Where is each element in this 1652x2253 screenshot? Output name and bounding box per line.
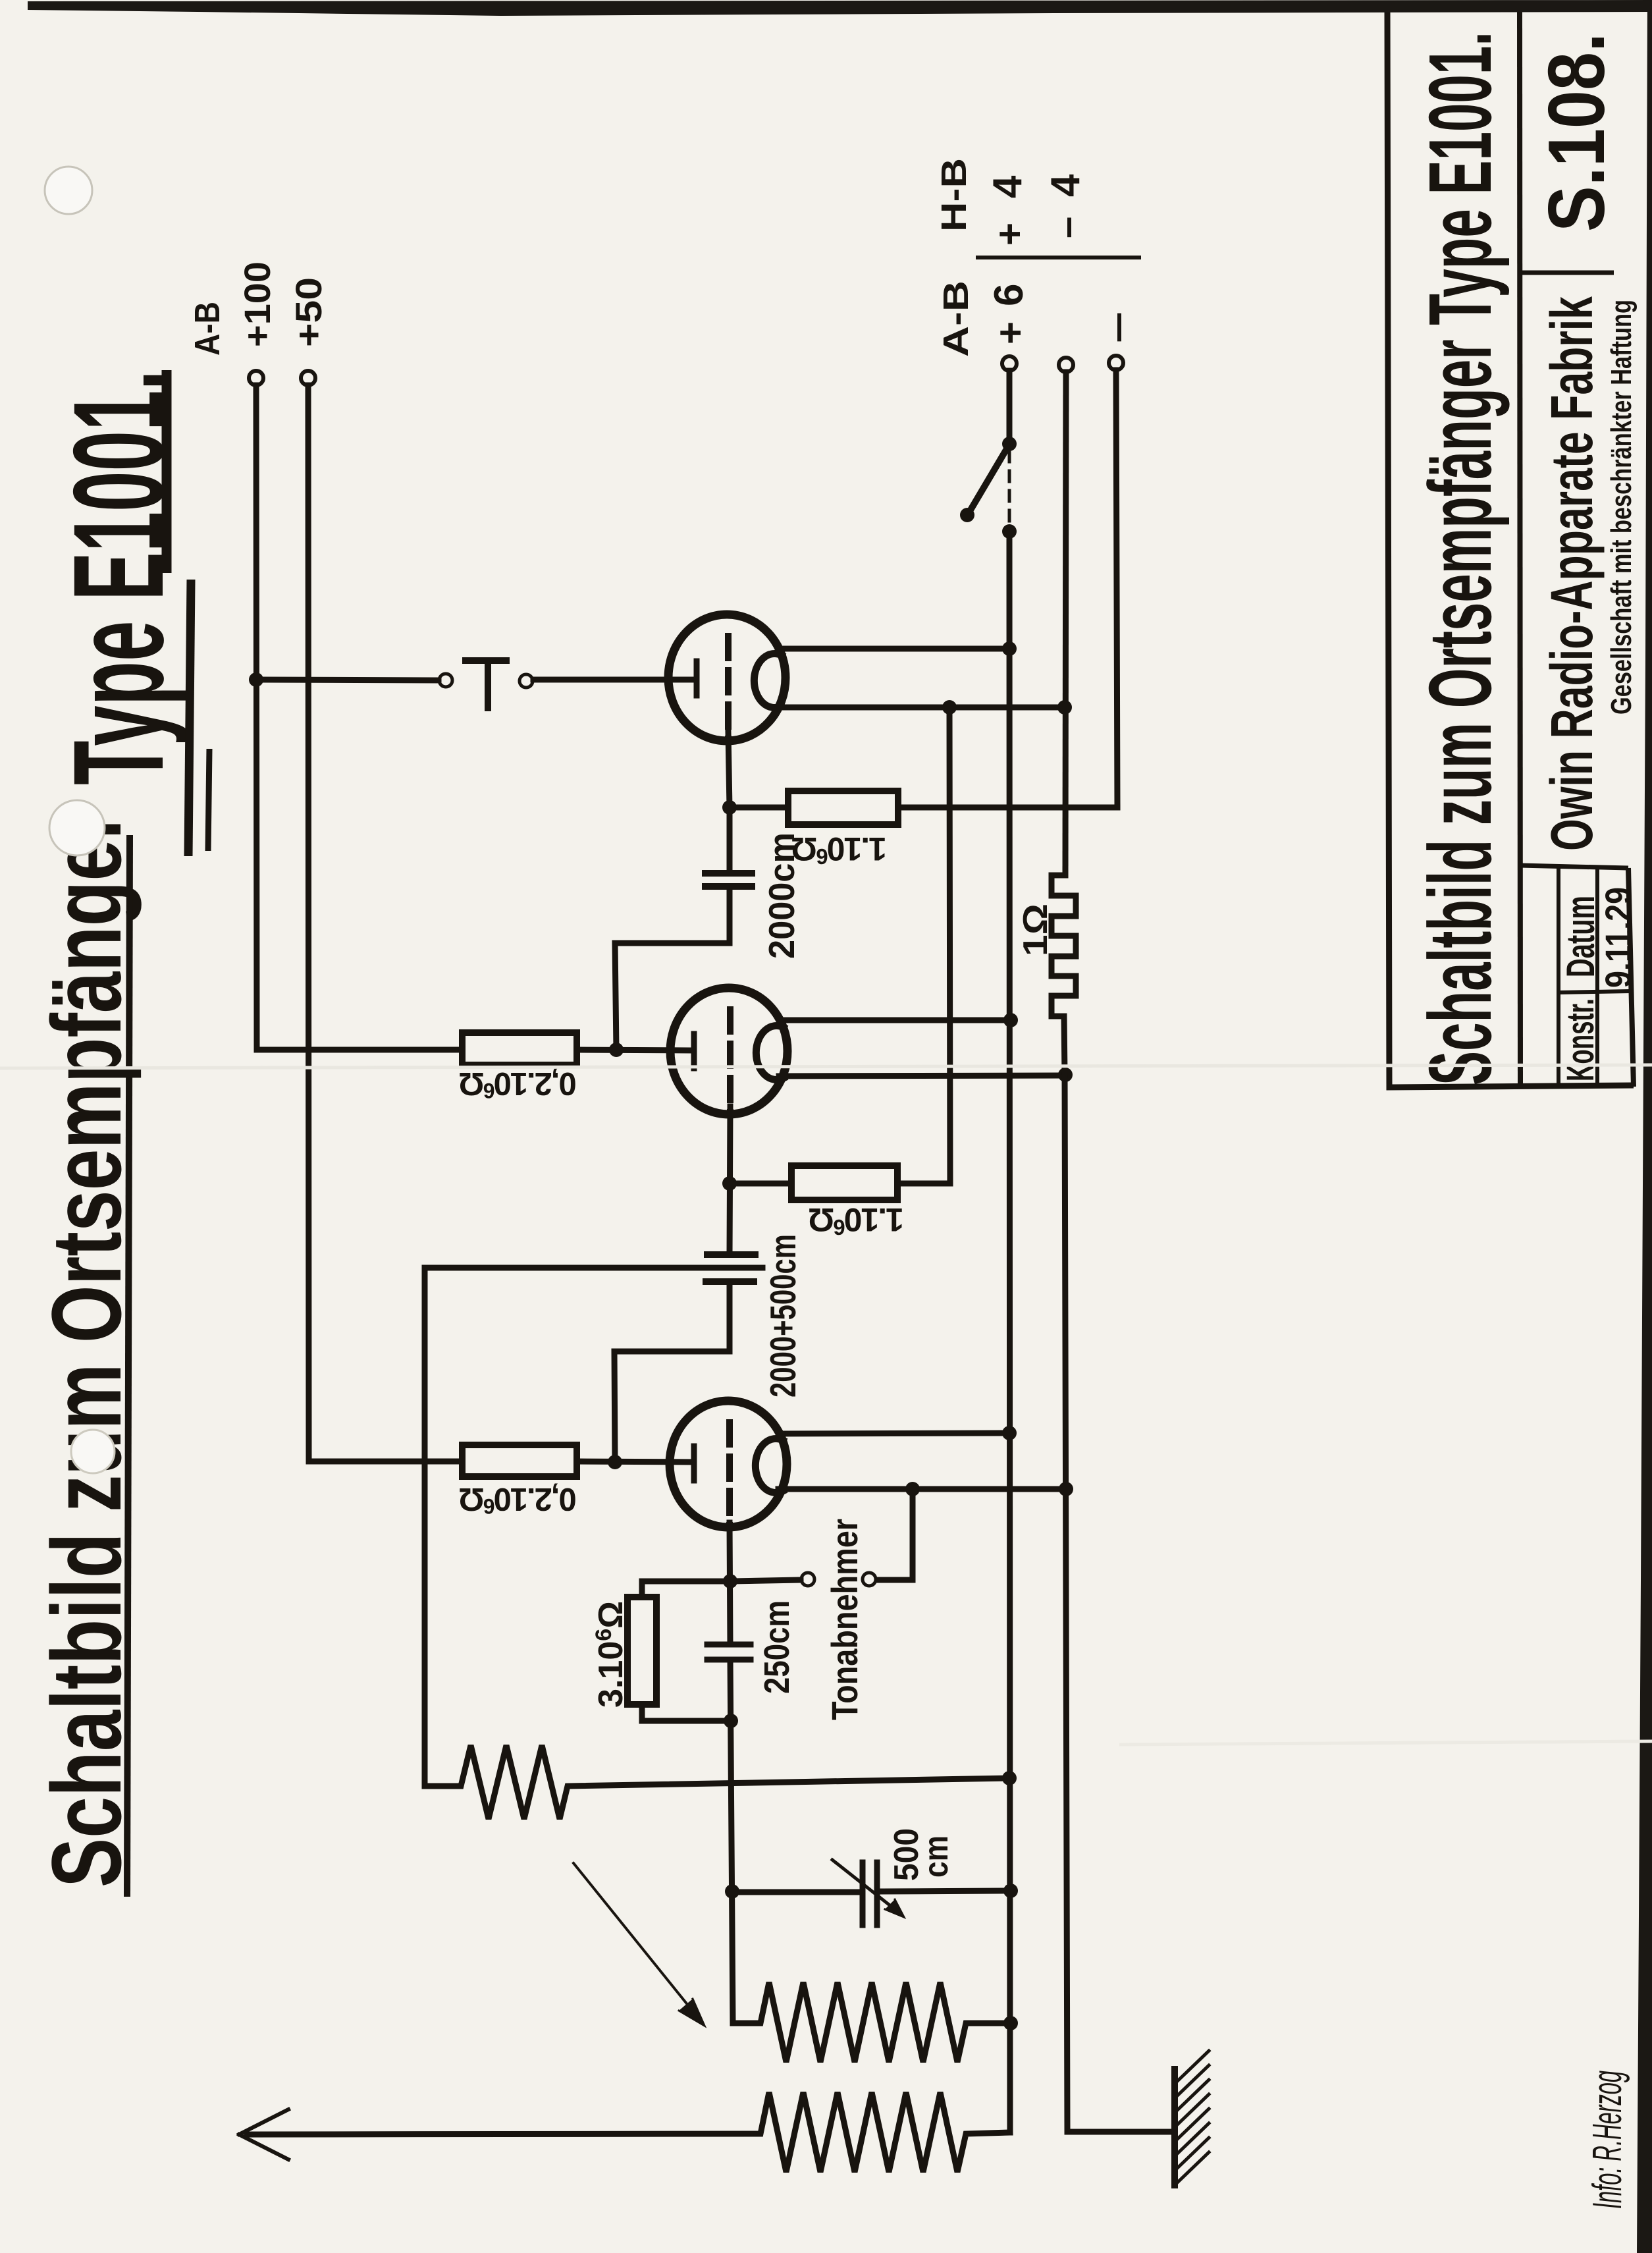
svg-text:S.108.: S.108.: [1532, 33, 1621, 232]
node A junction +100 bus to telephone switch: [249, 672, 263, 687]
tube V2 grid electrode: [691, 1034, 697, 1068]
switch S1 lever tip blob: [960, 508, 974, 522]
wire tube V2 anode to +6 bus: [781, 1018, 1011, 1023]
resistor R5 3.10^6 Ohm: [627, 1597, 656, 1704]
node junction below V1: [722, 800, 737, 815]
wire 500cm row left: [732, 1889, 857, 1895]
capacitor C1 2000cm upper plate: [705, 870, 752, 877]
svg-text:1.106Ω: 1.106Ω: [809, 1201, 904, 1239]
svg-text:4: 4: [985, 175, 1030, 198]
svg-text:Info: R.Herzog: Info: R.Herzog: [1585, 2071, 1630, 2209]
capacitor C1 2000cm lower plate: [705, 883, 752, 890]
terminal +100: [249, 371, 263, 385]
label +4: [985, 175, 1032, 246]
svg-text:+50: +50: [288, 277, 329, 347]
variable capacitor arrow through C4: [832, 1860, 904, 1917]
svg-text:0,2.106Ω: 0,2.106Ω: [460, 1066, 577, 1102]
wire +100 bus to switch T left contact: [256, 680, 439, 680]
svg-text:3.106Ω: 3.106Ω: [591, 1601, 630, 1708]
wire C2 bottom plate to grid node V3: [614, 1282, 730, 1462]
tube V2 filament dashed line: [727, 1010, 733, 1115]
tube V3 grid electrode: [691, 1446, 697, 1480]
punch hole lower: [71, 1430, 115, 1473]
paper crease light line: [0, 1065, 1652, 1068]
capacitor C3 250cm lower plate: [707, 1657, 751, 1663]
svg-text:Tonabnehmer: Tonabnehmer: [824, 1519, 865, 1720]
terminal H-B +4: [1059, 358, 1073, 372]
wire tube V2 cathode down: [730, 1106, 730, 1255]
svg-text:6: 6: [986, 284, 1032, 306]
resistor R1 1.10^6 Ohm: [788, 791, 898, 825]
switch T left contact circle: [439, 674, 452, 687]
wire tube V3 anode to +6 bus: [780, 1433, 1009, 1434]
divider bar H-B labels: [976, 256, 1141, 259]
tube V1 grid electrode: [694, 661, 700, 695]
punch hole top: [45, 167, 92, 214]
switch S1 lever: [970, 447, 1008, 511]
capacitor C3 250cm upper plate: [707, 1642, 751, 1648]
svg-text:–: –: [1044, 217, 1088, 238]
svg-text:cm: cm: [917, 1835, 955, 1878]
capacitor C2 2000+500cm middle plate wire to coil: [425, 1268, 762, 1786]
paper crease light line 2: [1119, 1741, 1652, 1745]
switch T right contact circle: [520, 674, 533, 688]
svg-text:Gesellschaft mit beschränkter: Gesellschaft mit beschränkter Haftung: [1605, 300, 1638, 715]
wire tube V3 filament to +4 bus: [778, 1486, 1066, 1492]
switch S1 pivot node: [1002, 437, 1017, 451]
svg-text:2000+500cm: 2000+500cm: [762, 1234, 803, 1398]
wire junction to C1: [727, 807, 733, 873]
wire R2 to grid node V2: [577, 1050, 691, 1050]
terminal -4: [1109, 356, 1123, 370]
svg-text:1Ω: 1Ω: [1017, 904, 1055, 956]
scan border right: [1637, 0, 1652, 2253]
wire left pickup terminal to V3 cathode node: [730, 1580, 801, 1581]
wire switch to grid of tube V1: [533, 677, 694, 683]
svg-text:4: 4: [1043, 174, 1088, 197]
wire C1 to grid node of V2: [615, 886, 730, 1050]
resistor 1 Ohm meander: [1052, 875, 1076, 1075]
switch S1 dashed gap: [1008, 451, 1011, 527]
bus +4 lower vertical to ground wire: [1065, 1075, 1171, 2132]
svg-text:+: +: [988, 223, 1032, 246]
bus +6 main vertical: [1009, 531, 1010, 2132]
regeneration arrow: [573, 1863, 705, 2026]
node junction L2 / +6 bus: [1003, 2016, 1018, 2030]
wire C3 down through junctions to coil L2: [730, 1660, 733, 2023]
svg-text:9.11.29: 9.11.29: [1597, 887, 1639, 988]
node junction V3 filament wire / +4 bus: [1059, 1482, 1073, 1496]
svg-text:+: +: [988, 321, 1032, 344]
capacitor C4 500cm left plate: [860, 1862, 866, 1925]
wire tube V1 filament to +4 bus: [777, 705, 1065, 711]
capacitor C2 2000+500cm bottom plate: [706, 1278, 754, 1285]
node junction V3 anode wire / +6 bus: [1002, 1426, 1017, 1440]
node junction V1 filament wire / dropper line: [942, 700, 957, 715]
main title underline 1: [127, 835, 130, 1897]
wire tube V3 cathode down: [730, 1523, 730, 1644]
wire R4 to grid node V3: [577, 1461, 691, 1462]
terminal A-B +6: [1002, 356, 1017, 371]
wire minus terminal bus vertical: [1116, 370, 1117, 807]
Tonabnehmer left terminal: [801, 1573, 814, 1586]
node grid junction V3: [608, 1455, 622, 1469]
antenna arrowhead: [239, 2109, 288, 2159]
node junction V3 filament / pickup branch: [905, 1482, 920, 1496]
svg-text:Owin Radio-Apparate Fabrik: Owin Radio-Apparate Fabrik: [1539, 296, 1605, 851]
scan border top: [28, 0, 1652, 16]
svg-text:250cm: 250cm: [757, 1600, 797, 1694]
node junction R5 bottom: [724, 1714, 738, 1728]
switch S1 lower contact node: [1002, 524, 1017, 539]
resistor R3 1.10^6 Ohm: [791, 1166, 897, 1200]
bus +4 upper vertical: [1065, 372, 1066, 875]
svg-text:Konstr.: Konstr.: [1559, 998, 1602, 1081]
wire +100 bus down then right to grid resistor row of tube V2: [256, 385, 462, 1050]
wire resistor R1 to minus terminal bus: [898, 805, 1117, 811]
resistor R4 0,2.10^6 Ohm grid leak V3: [462, 1445, 577, 1477]
wire pickup branch down to right pickup terminal: [877, 1489, 913, 1580]
tube V1 anode circle: [754, 654, 782, 708]
tube V1 envelope: [668, 614, 786, 741]
bus +6 upper segment to switch: [1007, 371, 1013, 444]
node junction V2 filament wire / +4 bus: [1058, 1068, 1073, 1082]
main title underline 4: [208, 749, 209, 851]
svg-text:Schaltbild zum Ortsempfänger T: Schaltbild zum Ortsempfänger Type E1001.: [1410, 32, 1510, 1085]
tube V3 envelope: [670, 1401, 787, 1527]
coil L1 zigzag with feed wire to +6 bus: [425, 1745, 1009, 1819]
switch T symbol: [466, 661, 506, 708]
node junction 500cm wire / +6 bus: [1003, 1884, 1018, 1898]
svg-text:0,2.106Ω: 0,2.106Ω: [460, 1481, 577, 1518]
tube V3 anode circle: [755, 1439, 783, 1493]
Tonabnehmer right terminal: [863, 1573, 876, 1586]
ground symbol: [1175, 2051, 1209, 2185]
main title underline 2: [162, 370, 172, 573]
antenna wire with coil L3 zigzag: [247, 2092, 1010, 2172]
wire 500cm row right to +6 bus: [883, 1891, 1011, 1891]
svg-text:+100: +100: [236, 261, 278, 347]
tube V2 anode circle: [756, 1025, 784, 1079]
punch hole middle: [49, 800, 105, 855]
node junction V3 cathode / pickup / R5 top: [723, 1574, 737, 1588]
wire +50 bus down then right to grid resistor row of tube V3: [308, 385, 462, 1461]
svg-text:1.106Ω: 1.106Ω: [791, 830, 887, 869]
svg-text:–: –: [1094, 312, 1138, 343]
svg-text:H-B: H-B: [934, 158, 974, 232]
node junction V2 anode wire / +6 bus: [1003, 1013, 1018, 1027]
capacitor C4 500cm right plate: [874, 1862, 880, 1925]
wire R5 bottom connection: [642, 1704, 731, 1721]
capacitor C2 2000+500cm top plate: [707, 1251, 755, 1258]
tube V3 filament dashed line: [726, 1423, 733, 1528]
node grid junction V2: [609, 1043, 624, 1057]
coil L2 zigzag: [733, 1982, 1005, 2062]
wire tube V1 anode to +6 bus: [779, 646, 1009, 652]
label +6: [986, 284, 1032, 344]
svg-text:A-B: A-B: [936, 281, 976, 357]
wire junction to resistor R1: [730, 805, 788, 811]
wire resistor R3 up to V1 filament node: [897, 707, 950, 1183]
svg-text:Datum: Datum: [1559, 896, 1603, 977]
node junction V1 filament wire / +4 bus: [1057, 700, 1072, 715]
resistor R2 0,2.10^6 Ohm grid leak V2: [462, 1033, 577, 1065]
svg-text:A-B: A-B: [188, 302, 227, 356]
tube V1 filament dashed line: [725, 636, 732, 742]
main title underline 3: [188, 580, 191, 856]
wire R5 top connection: [642, 1581, 730, 1597]
wire tube V2 filament to +4 bus below meander: [779, 1075, 1065, 1076]
node junction 500cm row: [725, 1884, 739, 1899]
tube V2 envelope: [670, 988, 787, 1114]
wire junction to resistor R3: [730, 1181, 791, 1187]
terminal +50: [301, 371, 315, 385]
wire tube V1 cathode down to junction: [728, 732, 730, 807]
node junction V1 anode wire / +6 bus: [1002, 641, 1017, 656]
label -4: [1043, 174, 1088, 238]
node junction V2 cathode / R3: [722, 1176, 737, 1191]
title block frame: [1387, 9, 1634, 1087]
node junction L1 wire / +6 bus: [1002, 1771, 1017, 1785]
